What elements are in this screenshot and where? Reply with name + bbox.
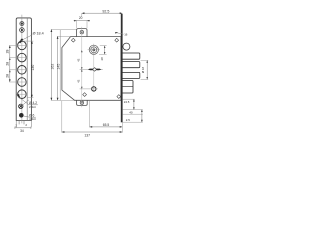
lever dark bar xyxy=(88,69,102,71)
screw hole S2 xyxy=(20,28,25,33)
dim 130 line xyxy=(31,41,33,97)
dim 34 line xyxy=(15,121,31,129)
shared bottom extension xyxy=(51,99,75,101)
svg-text:16: 16 xyxy=(124,33,128,37)
chain tick 2 xyxy=(9,70,11,72)
svg-text:28: 28 xyxy=(100,57,104,61)
hole H6 Ø6 filled xyxy=(19,113,24,118)
hole H42 Ø4.2 cross-marked xyxy=(19,104,23,108)
bottom tab hole xyxy=(80,101,83,104)
svg-text:24.5: 24.5 xyxy=(124,100,130,104)
rivet diamond top-right xyxy=(115,38,119,42)
dim 162 extension top xyxy=(51,28,77,30)
cylinder hole xyxy=(89,45,98,54)
dim 20 ext lines xyxy=(77,20,87,28)
faceplate side view dark bar xyxy=(121,14,123,123)
right ext 122.2 xyxy=(122,121,142,123)
dim Ø18 arrows xyxy=(146,60,148,79)
tab centerline xyxy=(81,27,83,108)
deadbolt B2 xyxy=(122,62,139,68)
hole C5 xyxy=(17,90,27,99)
dim 40 arrows xyxy=(141,110,143,123)
centerline dim ticks xyxy=(81,50,83,89)
label Ø4.2 2 fori xyxy=(29,101,38,109)
rivet diamond bottom-left xyxy=(83,93,87,97)
leader line to label from hole H42 xyxy=(22,100,29,106)
hole C4 xyxy=(17,78,27,87)
svg-text:42: 42 xyxy=(76,79,80,83)
dim 145 extension top xyxy=(57,35,70,37)
dim 40 line xyxy=(141,110,143,123)
latch bolt xyxy=(123,43,130,50)
dim 130 extension bottom xyxy=(28,96,34,98)
svg-text:42: 42 xyxy=(76,58,80,62)
hole C3 xyxy=(17,66,27,75)
cylinder vertical centerline xyxy=(93,56,95,92)
hole C2 xyxy=(17,53,27,62)
deadbolt B3 xyxy=(122,72,139,78)
auxiliary extension line near body top-left xyxy=(59,30,61,100)
svg-text:4 fori: 4 fori xyxy=(29,117,36,121)
dim 28 at cylinder line xyxy=(104,46,106,55)
dim Ø18 ext lines xyxy=(141,60,149,79)
dim 65.5 ext xyxy=(89,101,91,128)
dim 28 at cylinder ext lines xyxy=(99,46,107,55)
hub circle xyxy=(92,87,96,91)
dim 162 arrows xyxy=(51,29,53,100)
dim 92.5 line xyxy=(82,12,123,14)
top tab xyxy=(77,29,87,37)
svg-text:92.5: 92.5 xyxy=(102,9,109,13)
faceplate front view outer plate xyxy=(16,18,31,121)
leader arrowhead near C5 xyxy=(17,94,21,98)
svg-text:2 fori: 2 fori xyxy=(29,105,36,109)
latch bolt B4 xyxy=(122,81,133,94)
cylinder crosshair xyxy=(88,44,100,56)
rivet diamond bottom-right xyxy=(117,95,121,99)
svg-text:65.5: 65.5 xyxy=(103,123,110,127)
svg-text:28: 28 xyxy=(5,74,9,78)
dimension chain 28x3 extension lines xyxy=(9,45,16,82)
right ext 107.9 xyxy=(122,109,142,111)
lock body outline xyxy=(62,37,121,101)
faceplate centerline xyxy=(21,15,23,124)
dim 20 arrows xyxy=(74,20,89,22)
svg-text:28: 28 xyxy=(5,62,9,66)
right ext 96.6 xyxy=(122,98,134,100)
right ext 113.9 xyxy=(122,113,142,115)
leader line to label Ø4.2 xyxy=(18,96,29,104)
hole C1 Ø18.4 xyxy=(17,41,27,50)
dim 24.5 line xyxy=(133,99,135,109)
svg-text:2.5: 2.5 xyxy=(126,118,130,122)
label Ø6 4 fori xyxy=(29,114,36,122)
lever centerline xyxy=(80,68,103,70)
leader arrowhead Ø18.4 xyxy=(19,38,23,43)
chain tick 1 xyxy=(9,58,11,60)
rivet diamond top-left xyxy=(71,38,75,42)
svg-text:2: 2 xyxy=(25,123,27,127)
dim 92.5 left ext xyxy=(81,13,83,17)
dim 145 line xyxy=(57,36,59,100)
dim 65.5 line xyxy=(90,126,123,128)
dim 162 line xyxy=(50,29,52,100)
leader line Ø18.4 xyxy=(21,35,33,41)
leader line to label from hole H6 xyxy=(23,116,29,117)
dim Ø18 line xyxy=(146,60,148,79)
label 16 leader xyxy=(115,32,124,34)
svg-text:137: 137 xyxy=(84,133,90,137)
top tab hole xyxy=(80,31,83,34)
svg-text:Ø 18.4: Ø 18.4 xyxy=(33,31,44,35)
dim 130 arrows xyxy=(31,41,33,97)
screw hole S1 xyxy=(20,22,24,26)
svg-text:162: 162 xyxy=(50,64,54,70)
dimension chain 28x3 line xyxy=(9,45,11,82)
dim 137 line xyxy=(62,131,123,133)
svg-text:40: 40 xyxy=(129,110,133,114)
dim 145 arrows xyxy=(57,36,59,100)
bottom tab xyxy=(77,100,88,105)
svg-text:34: 34 xyxy=(20,129,24,133)
latch bolt B4 divider xyxy=(122,86,133,88)
bottom plate slot lines xyxy=(19,121,24,125)
dim 137 arrows xyxy=(62,131,123,133)
dim 28 at cylinder arrows xyxy=(104,46,106,55)
dim 24.5 arrows xyxy=(133,99,135,109)
svg-text:130: 130 xyxy=(31,65,35,71)
svg-text:Ø 18: Ø 18 xyxy=(141,66,145,73)
faceplate inner plate edge xyxy=(26,18,28,121)
dim 65.5 arrows xyxy=(90,126,123,128)
faceplate bottom ext xyxy=(121,122,123,132)
dim 20 line xyxy=(74,20,90,22)
dim 130 extension top xyxy=(23,40,33,42)
dim 137 ext xyxy=(61,101,63,133)
dim 92.5 arrows xyxy=(82,12,123,14)
chain arrow bottom xyxy=(9,79,11,82)
deadbolt B1 xyxy=(122,53,139,59)
chain arrow top xyxy=(9,45,11,48)
svg-text:28: 28 xyxy=(5,50,9,54)
hub centerline xyxy=(80,88,98,90)
lever diamond xyxy=(93,68,97,72)
